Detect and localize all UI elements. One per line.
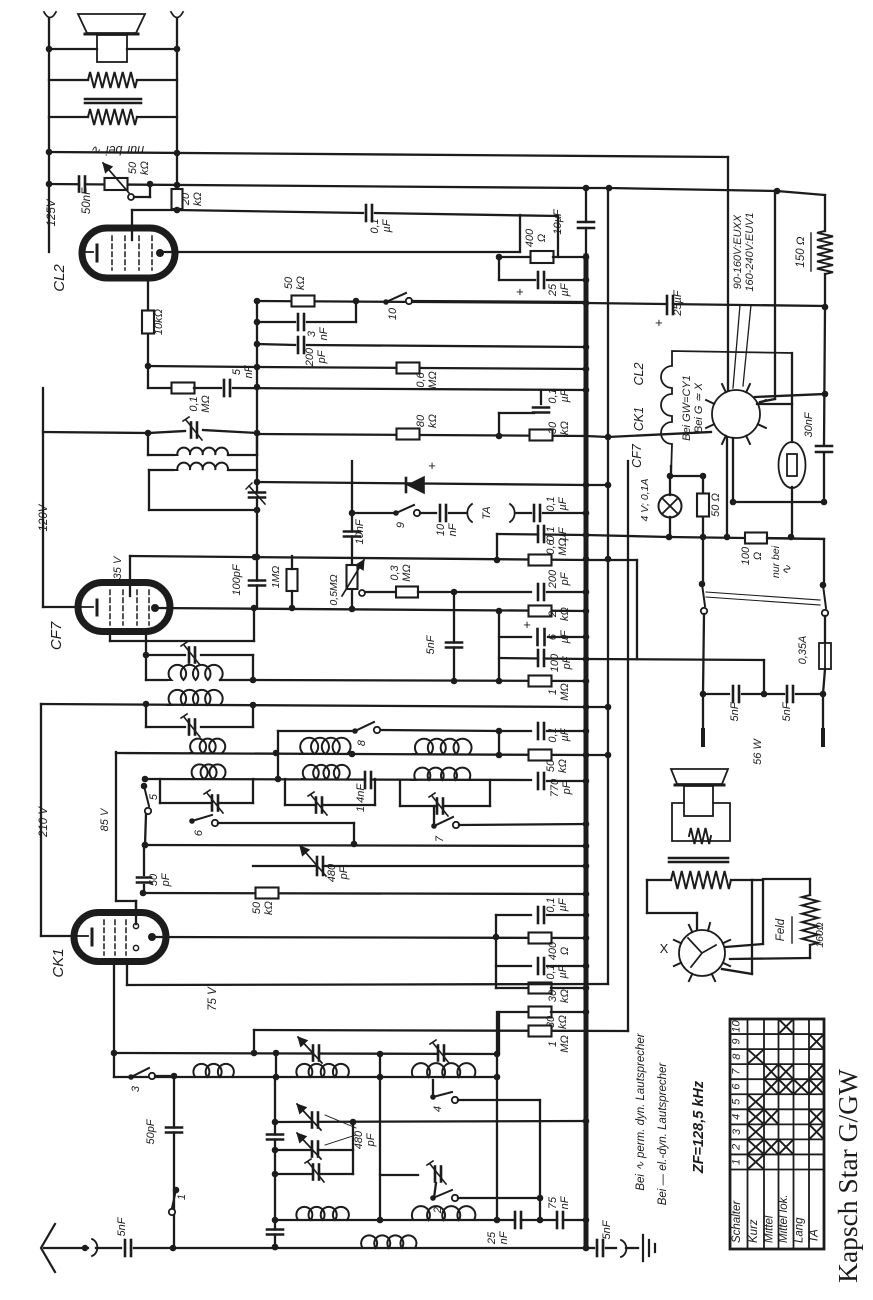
svg-text:1: 1 — [176, 1194, 188, 1200]
svg-text:50: 50 — [251, 901, 263, 914]
svg-text:kΩ: kΩ — [192, 192, 204, 206]
svg-text:pF: pF — [365, 1132, 377, 1147]
svg-text:+: + — [512, 288, 527, 296]
svg-text:50: 50 — [148, 873, 160, 886]
svg-text:0,6: 0,6 — [415, 371, 427, 387]
svg-text:µF: µF — [381, 218, 393, 232]
svg-text:0,1: 0,1 — [545, 526, 557, 541]
svg-text:10kΩ: 10kΩ — [153, 309, 165, 335]
svg-text:pF: pF — [160, 872, 172, 887]
svg-text:+: + — [651, 319, 666, 327]
svg-text:pF: pF — [561, 780, 573, 795]
svg-text:480: 480 — [353, 1130, 365, 1149]
svg-text:X: X — [660, 941, 669, 956]
svg-text:0,5MΩ: 0,5MΩ — [328, 574, 340, 605]
svg-text:50 Ω: 50 Ω — [710, 493, 722, 517]
svg-text:0,1: 0,1 — [545, 964, 557, 979]
svg-text:TA: TA — [481, 506, 493, 519]
svg-text:30: 30 — [547, 989, 559, 1002]
svg-text:50: 50 — [283, 276, 295, 289]
svg-text:3: 3 — [731, 1128, 743, 1135]
svg-text:+: + — [428, 458, 436, 473]
svg-text:kΩ: kΩ — [559, 989, 571, 1003]
svg-text:80: 80 — [415, 414, 427, 427]
svg-text:kΩ: kΩ — [557, 759, 569, 773]
svg-text:2: 2 — [547, 611, 559, 618]
svg-text:0,3: 0,3 — [389, 564, 401, 580]
svg-text:1: 1 — [547, 689, 559, 695]
svg-text:Ω: Ω — [536, 234, 548, 242]
svg-text:120V: 120V — [38, 503, 50, 531]
svg-text:0,1: 0,1 — [188, 396, 200, 411]
svg-text:CF7: CF7 — [48, 621, 65, 650]
svg-text:Ω: Ω — [752, 552, 764, 560]
svg-text:kΩ: kΩ — [427, 414, 439, 428]
svg-text:Kapsch Star G/GW: Kapsch Star G/GW — [832, 1069, 863, 1283]
svg-text:pF: pF — [561, 655, 573, 670]
svg-text:Kurz: Kurz — [748, 1219, 760, 1243]
svg-text:nur bei ∿: nur bei ∿ — [91, 143, 144, 157]
svg-text:90-160V:EUXX: 90-160V:EUXX — [732, 214, 744, 289]
svg-text:nF: nF — [318, 326, 330, 340]
svg-text:5: 5 — [148, 793, 160, 800]
svg-text:5nF: 5nF — [116, 1216, 128, 1236]
svg-text:µF: µF — [557, 897, 569, 911]
svg-text:µF: µF — [557, 526, 569, 540]
svg-text:35 V: 35 V — [112, 555, 124, 579]
svg-text:µF: µF — [559, 727, 571, 741]
svg-text:75: 75 — [547, 1196, 559, 1209]
svg-text:µF: µF — [557, 964, 569, 978]
svg-text:125V: 125V — [46, 198, 58, 226]
svg-text:kΩ: kΩ — [295, 276, 307, 290]
svg-text:Schalter: Schalter — [731, 1200, 743, 1243]
svg-text:770: 770 — [549, 778, 561, 797]
svg-text:nF: nF — [498, 1230, 510, 1244]
svg-text:Bei G ≃ X: Bei G ≃ X — [693, 382, 705, 433]
svg-text:5nF: 5nF — [781, 701, 793, 721]
svg-text:160Ω: 160Ω — [814, 922, 826, 948]
svg-text:Ω: Ω — [559, 947, 571, 955]
svg-text:200: 200 — [547, 569, 559, 589]
svg-text:10: 10 — [387, 307, 399, 320]
svg-text:Mittel: Mittel — [763, 1215, 775, 1243]
svg-text:CL2: CL2 — [632, 362, 646, 385]
svg-text:100pF: 100pF — [231, 563, 243, 595]
svg-text:400: 400 — [524, 228, 536, 247]
svg-text:5nF: 5nF — [729, 701, 741, 721]
svg-text:1,4nF: 1,4nF — [355, 783, 367, 812]
svg-text:kΩ: kΩ — [559, 421, 571, 435]
svg-text:Lang: Lang — [793, 1217, 805, 1243]
svg-text:25µF: 25µF — [672, 289, 684, 317]
svg-text:10: 10 — [731, 1020, 743, 1033]
svg-text:6: 6 — [193, 829, 205, 836]
svg-text:50pF: 50pF — [145, 1118, 157, 1144]
svg-text:3: 3 — [306, 330, 318, 337]
svg-text:Bei — el.-dyn. Lautsprecher: Bei — el.-dyn. Lautsprecher — [657, 1062, 669, 1206]
svg-text:8: 8 — [356, 739, 368, 746]
svg-text:1: 1 — [731, 1159, 743, 1165]
svg-text:210 V: 210 V — [38, 806, 50, 838]
svg-text:5: 5 — [731, 1098, 743, 1105]
svg-text:0,1: 0,1 — [547, 727, 559, 742]
svg-text:0,1: 0,1 — [545, 897, 557, 912]
svg-text:kΩ: kΩ — [557, 1015, 569, 1029]
svg-text:150 Ω: 150 Ω — [795, 236, 807, 267]
svg-text:µF: µF — [559, 282, 571, 296]
svg-text:Bei ∿ perm. dyn. Lautsprecher: Bei ∿ perm. dyn. Lautsprecher — [635, 1032, 647, 1190]
svg-text:400: 400 — [547, 941, 559, 960]
svg-text:5nF: 5nF — [425, 634, 437, 654]
svg-text:56 W: 56 W — [752, 738, 764, 765]
svg-text:MΩ: MΩ — [401, 564, 413, 582]
svg-text:MΩ: MΩ — [559, 1035, 571, 1053]
svg-text:4: 4 — [731, 1114, 743, 1120]
svg-text:10nF: 10nF — [354, 518, 366, 544]
svg-text:∿: ∿ — [779, 564, 794, 575]
svg-text:0,35A: 0,35A — [797, 636, 809, 665]
svg-text:100: 100 — [740, 546, 752, 565]
svg-text:Mittel lok.: Mittel lok. — [778, 1194, 790, 1243]
svg-text:CL2: CL2 — [51, 264, 68, 292]
svg-text:25: 25 — [486, 1231, 498, 1245]
svg-text:30: 30 — [547, 421, 559, 434]
svg-text:480: 480 — [326, 863, 338, 882]
svg-text:CK1: CK1 — [632, 407, 646, 431]
svg-text:3: 3 — [130, 1085, 142, 1092]
svg-text:6: 6 — [547, 633, 559, 640]
svg-text:30nF: 30nF — [803, 411, 815, 437]
svg-text:20: 20 — [180, 192, 192, 206]
svg-text:6: 6 — [731, 1083, 743, 1090]
svg-text:10µF: 10µF — [552, 208, 564, 235]
svg-text:1MΩ: 1MΩ — [270, 566, 282, 589]
svg-text:µF: µF — [559, 629, 571, 643]
svg-text:TA: TA — [809, 1229, 821, 1243]
svg-text:160-240V:EUV1: 160-240V:EUV1 — [744, 212, 756, 291]
svg-text:MΩ: MΩ — [200, 395, 212, 413]
svg-text:50: 50 — [127, 161, 139, 174]
svg-text:8: 8 — [731, 1053, 743, 1060]
svg-text:200: 200 — [304, 347, 316, 367]
svg-text:5: 5 — [231, 368, 243, 375]
svg-text:0,1: 0,1 — [545, 496, 557, 511]
svg-text:nF: nF — [559, 1195, 571, 1209]
svg-text:MΩ: MΩ — [427, 371, 439, 389]
svg-text:kΩ: kΩ — [263, 901, 275, 915]
svg-text:Feld: Feld — [775, 918, 787, 941]
svg-text:+: + — [523, 617, 531, 632]
svg-text:50: 50 — [545, 759, 557, 772]
svg-text:4: 4 — [432, 1106, 444, 1112]
svg-text:µF: µF — [557, 496, 569, 510]
svg-text:CF7: CF7 — [630, 443, 644, 468]
svg-text:nF: nF — [447, 522, 459, 536]
svg-text:1: 1 — [547, 1041, 559, 1047]
svg-text:pF: pF — [338, 865, 350, 880]
svg-text:CK1: CK1 — [50, 948, 67, 977]
svg-text:4 V; 0,1A: 4 V; 0,1A — [639, 478, 651, 521]
svg-text:10: 10 — [435, 523, 447, 536]
svg-text:kΩ: kΩ — [139, 161, 151, 175]
svg-text:9: 9 — [395, 522, 407, 528]
svg-text:75 V: 75 V — [207, 986, 219, 1011]
svg-text:kΩ: kΩ — [559, 607, 571, 621]
svg-text:5nF: 5nF — [601, 1219, 613, 1239]
svg-text:nF: nF — [243, 364, 255, 378]
svg-text:7: 7 — [434, 835, 446, 842]
svg-text:85 V: 85 V — [99, 807, 111, 831]
svg-text:50nF: 50nF — [81, 187, 93, 214]
svg-text:pF: pF — [559, 571, 571, 586]
svg-text:Bei GW=CY1: Bei GW=CY1 — [681, 375, 693, 441]
svg-text:7: 7 — [731, 1068, 743, 1075]
svg-text:pF: pF — [316, 349, 328, 364]
svg-text:2: 2 — [731, 1144, 743, 1151]
svg-text:9: 9 — [731, 1039, 743, 1045]
svg-text:100: 100 — [549, 653, 561, 672]
svg-text:25: 25 — [547, 283, 559, 297]
svg-text:ZF=128,5 kHz: ZF=128,5 kHz — [691, 1080, 707, 1174]
svg-text:0,1: 0,1 — [369, 218, 381, 233]
svg-text:MΩ: MΩ — [559, 683, 571, 701]
